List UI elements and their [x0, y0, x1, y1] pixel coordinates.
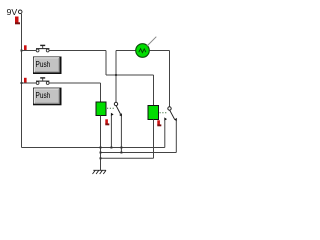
wire rail C: [101, 157, 154, 159]
current marker on supply: [15, 17, 20, 25]
current marker relay2: [157, 120, 161, 126]
wire relay2 NC drop: [164, 120, 166, 147]
wire relay2 coil feed: [153, 75, 155, 106]
relay2 contact NO: [174, 118, 177, 121]
push button B2: [33, 88, 62, 106]
current marker branch 2: [24, 78, 27, 83]
wire relay2 NO drop: [175, 121, 177, 153]
wire rail A bottom: [22, 147, 165, 149]
push button B1: [33, 57, 62, 75]
push switch S1: [36, 45, 49, 51]
wire relay1 coil ground riser: [100, 116, 102, 171]
junction railA NC1: [110, 147, 112, 149]
svg-text:Push: Push: [36, 90, 51, 100]
relay1 contact NO: [119, 113, 122, 116]
svg-text:9V: 9V: [7, 7, 18, 17]
wire lamp right horizontal: [149, 50, 169, 52]
relay1 common: [114, 102, 117, 105]
relay1 contact NC: [111, 113, 114, 116]
wire branch2 right: [49, 82, 100, 84]
lamp L1: [136, 37, 157, 58]
wire node line: [106, 74, 154, 76]
wire branch1 left: [22, 50, 36, 52]
relay2 coil: [148, 106, 159, 120]
wire branch1 right: [49, 50, 106, 52]
push switch S2: [36, 78, 49, 85]
wire branch1 drop: [105, 51, 107, 76]
wire left rail: [21, 14, 23, 148]
ground: [93, 170, 107, 174]
relay2 lever: [170, 110, 175, 119]
junction railB NO1: [120, 152, 122, 154]
wire branch2 left: [22, 82, 36, 84]
relay2 common: [168, 107, 171, 110]
wire lamp left vertical: [115, 51, 117, 103]
node junction N1: [115, 74, 117, 76]
wire relay1 NC drop: [110, 116, 112, 148]
wire lamp right vertical: [169, 51, 171, 107]
node junction push2: [21, 82, 23, 84]
node junction push1: [21, 50, 23, 52]
relay1 lever: [116, 106, 120, 114]
wire coil1 feed: [100, 83, 102, 102]
battery terminal: [18, 10, 22, 14]
current marker branch 1: [24, 45, 27, 50]
wire rail B: [101, 152, 177, 154]
junction riser railA: [100, 147, 102, 149]
relay1 link: [107, 107, 114, 109]
relay2 contact NC: [164, 117, 167, 120]
wire relay2 coil drop: [153, 120, 155, 159]
current marker relay1: [105, 119, 109, 125]
relay1 coil: [96, 102, 106, 116]
junction railA NO1: [120, 147, 122, 149]
svg-text:Push: Push: [36, 59, 51, 69]
junction railB riser: [100, 152, 102, 154]
relay2 link: [160, 112, 168, 114]
wire relay1 NO drop: [120, 116, 122, 152]
junction railC riser: [100, 157, 102, 159]
wire lamp left horizontal: [116, 50, 136, 52]
